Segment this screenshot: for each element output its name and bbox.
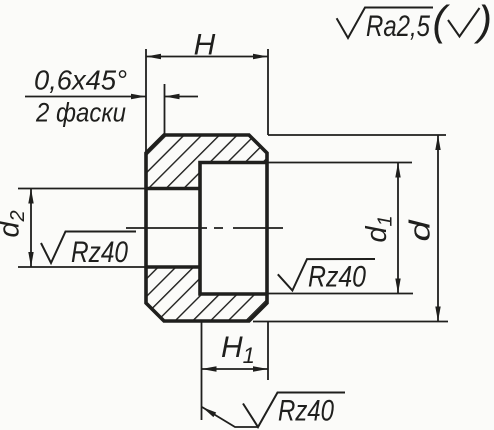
svg-text:2 фаски: 2 фаски [35,98,126,128]
svg-text:Rz40: Rz40 [71,236,128,269]
svg-text:Ra2,5: Ra2,5 [366,10,430,43]
svg-text:H: H [194,29,216,62]
svg-text:Rz40: Rz40 [308,261,366,294]
svg-text:Rz40: Rz40 [278,395,334,428]
svg-text:0,6x45°: 0,6x45° [34,65,127,96]
svg-text:d: d [405,219,437,241]
